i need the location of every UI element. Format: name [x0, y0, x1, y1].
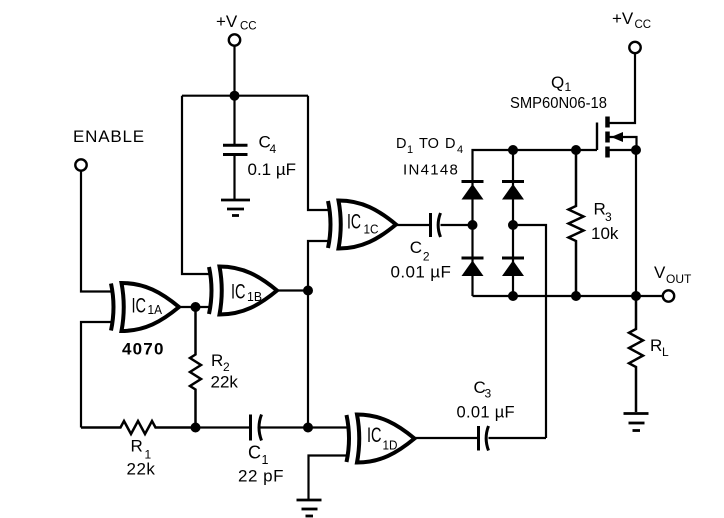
svg-text:1A: 1A: [148, 303, 163, 317]
svg-text:D: D: [396, 136, 406, 152]
wire IC1A lower input to R1 node: [81, 322, 113, 428]
wire IC1A output: [179, 306, 210, 308]
wire diode column 2: [512, 150, 514, 296]
+Vcc terminal right: [629, 42, 640, 53]
node diode col2 middle: [508, 220, 518, 230]
wire ENABLE to IC1A upper input: [81, 171, 113, 292]
svg-text:CC: CC: [635, 19, 652, 31]
svg-text:1: 1: [262, 453, 269, 467]
svg-text:22k: 22k: [211, 373, 239, 392]
XOR gate IC1B: [209, 267, 277, 315]
node col2 bottom: [508, 291, 518, 301]
wire D3/D4 node to C3: [513, 225, 546, 438]
node source rail: [631, 291, 641, 301]
svg-text:R: R: [650, 336, 662, 355]
wire IC1D output: [415, 437, 478, 439]
svg-text:R: R: [211, 351, 223, 370]
node R3 bottom: [571, 291, 581, 301]
svg-text:IC: IC: [132, 294, 147, 318]
diode D2: [462, 258, 484, 276]
node IC1A output junction: [191, 302, 201, 312]
wire IC1C output: [396, 224, 429, 226]
svg-text:SMP60N06-18: SMP60N06-18: [510, 95, 607, 112]
svg-text:R: R: [594, 200, 606, 219]
wire top-rail to IC1B upper input: [182, 96, 211, 274]
wire IC1B output: [278, 289, 308, 291]
diode D4: [502, 258, 524, 276]
svg-text:IC: IC: [231, 280, 246, 304]
svg-text:0.01 µF: 0.01 µF: [391, 263, 452, 282]
wire IC1D lower input to ground: [309, 456, 350, 500]
svg-text:D: D: [445, 136, 455, 152]
svg-text:1C: 1C: [364, 223, 379, 237]
ENABLE terminal: [75, 159, 86, 170]
svg-text:V: V: [654, 263, 666, 282]
svg-text:22 pF: 22 pF: [238, 467, 284, 486]
wire top rail: [182, 95, 308, 97]
node diode col2 top: [508, 145, 518, 155]
svg-text:CC: CC: [240, 21, 257, 33]
+Vcc terminal left: [229, 34, 240, 45]
ground below C4: [221, 200, 250, 216]
node IC1B output junction: [303, 286, 313, 296]
svg-text:Q: Q: [551, 73, 564, 92]
svg-text:10k: 10k: [591, 224, 619, 243]
capacitor C3: [477, 426, 480, 451]
svg-text:L: L: [662, 345, 669, 359]
svg-text:IN4148: IN4148: [403, 162, 459, 179]
svg-text:1: 1: [407, 144, 413, 156]
svg-text:1B: 1B: [247, 290, 262, 304]
node R1/R2/C1 junction: [191, 423, 201, 433]
svg-text:+V: +V: [612, 9, 634, 28]
transistor Q1 MOSFET: [597, 54, 637, 158]
wire diode top rail to MOSFET gate: [473, 150, 598, 296]
ground below IC1D: [297, 500, 322, 516]
wire node to C1: [196, 426, 250, 428]
capacitor C1: [249, 415, 252, 441]
svg-text:22k: 22k: [127, 460, 156, 479]
svg-text:C: C: [410, 238, 422, 257]
diode D1: [462, 182, 484, 200]
resistor R1: [81, 421, 196, 434]
resistor R3: [569, 150, 584, 296]
svg-text:3: 3: [485, 387, 492, 401]
svg-text:0.01 µF: 0.01 µF: [457, 404, 515, 422]
svg-text:C: C: [248, 443, 261, 463]
node MOSFET source: [631, 145, 641, 155]
svg-text:ENABLE: ENABLE: [73, 127, 145, 146]
svg-text:2: 2: [423, 250, 430, 264]
svg-text:4: 4: [457, 144, 463, 156]
node Vcc rail junction: [230, 91, 240, 101]
XOR gate IC1C: [328, 201, 396, 249]
svg-text:4: 4: [270, 142, 277, 156]
capacitor C4: [233, 96, 235, 144]
svg-text:1D: 1D: [383, 439, 398, 453]
wire Vcc to rail: [233, 46, 235, 96]
node C2 to diode column 1: [468, 220, 478, 230]
ground below RL: [624, 414, 649, 431]
svg-text:IC: IC: [347, 210, 361, 234]
wire IC1C lower input branch: [308, 241, 328, 291]
svg-text:TO: TO: [419, 136, 439, 152]
wire source down to Vout rail: [635, 150, 637, 296]
resistor RL: [629, 296, 643, 412]
wire rail to IC1C upper input: [308, 96, 328, 210]
node C1/IC1D junction: [303, 423, 313, 433]
wire C1 node to IC1D upper input: [308, 426, 349, 428]
XOR gate IC1A: [111, 283, 179, 331]
svg-text:0.1 µF: 0.1 µF: [248, 160, 297, 179]
Vout terminal: [663, 290, 674, 301]
svg-text:1: 1: [565, 80, 572, 94]
wire Vout rail: [473, 295, 664, 297]
resistor R2: [190, 307, 201, 428]
diode D3: [502, 182, 524, 200]
svg-text:R: R: [131, 437, 143, 456]
svg-text:IC: IC: [367, 423, 382, 447]
svg-text:OUT: OUT: [666, 272, 692, 286]
node R3 top: [571, 145, 581, 155]
svg-text:3: 3: [605, 210, 612, 224]
svg-text:4070: 4070: [122, 340, 165, 359]
capacitor C2: [429, 213, 432, 237]
wire IC1B output node down to C1 node: [307, 291, 309, 428]
XOR gate IC1D: [347, 415, 415, 463]
svg-text:+V: +V: [216, 12, 238, 31]
